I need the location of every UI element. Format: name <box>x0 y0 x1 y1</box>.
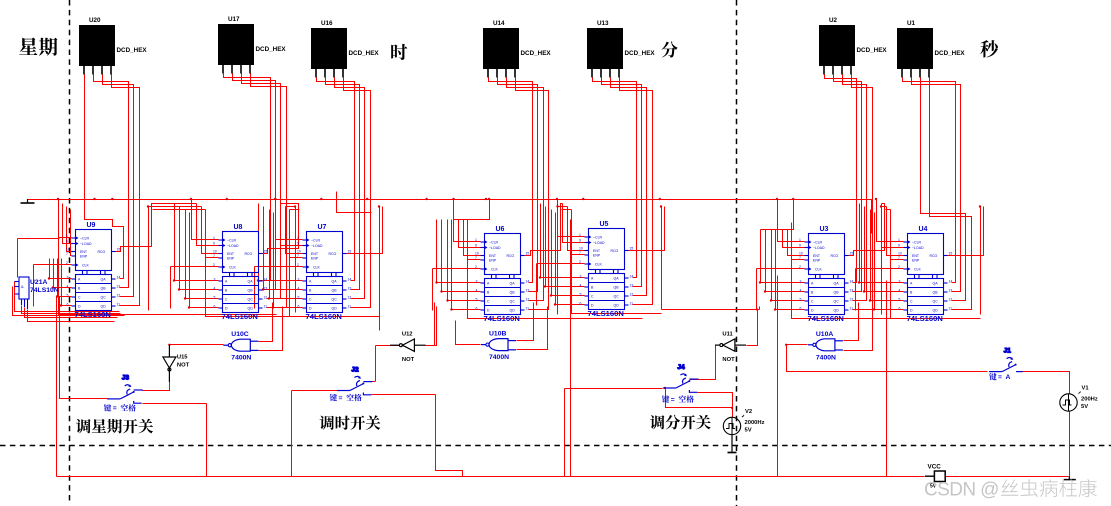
svg-text:74LS160N: 74LS160N <box>588 309 624 318</box>
svg-text:QA: QA <box>614 277 620 281</box>
svg-text:11: 11 <box>348 305 352 309</box>
svg-text:1: 1 <box>475 238 477 242</box>
svg-text:5: 5 <box>899 298 901 302</box>
svg-text:7: 7 <box>475 256 477 260</box>
svg-text:QA: QA <box>834 282 840 286</box>
svg-text:11: 11 <box>630 302 634 306</box>
svg-text:13: 13 <box>630 284 634 288</box>
svg-text:9: 9 <box>297 242 299 246</box>
svg-text:~CLR: ~CLR <box>227 239 237 243</box>
svg-text:=: = <box>671 396 675 403</box>
svg-text:7: 7 <box>579 251 581 255</box>
svg-text:74LS160N: 74LS160N <box>907 314 943 323</box>
svg-text:1: 1 <box>579 233 581 237</box>
svg-text:7400N: 7400N <box>231 355 251 362</box>
svg-text:U4: U4 <box>919 226 928 233</box>
svg-text:RCO: RCO <box>611 249 619 253</box>
svg-text:ENT: ENT <box>80 250 88 254</box>
svg-text:DCD_HEX: DCD_HEX <box>935 50 966 57</box>
svg-text:U14: U14 <box>493 20 505 27</box>
svg-text:9: 9 <box>579 239 581 243</box>
svg-text:DCD_HEX: DCD_HEX <box>117 47 148 54</box>
svg-text:12: 12 <box>348 296 352 300</box>
svg-text:ENT: ENT <box>813 254 821 258</box>
svg-text:74LS160N: 74LS160N <box>808 314 844 323</box>
svg-text:13: 13 <box>117 285 121 289</box>
svg-text:15: 15 <box>850 252 854 256</box>
svg-text:U2: U2 <box>829 17 838 24</box>
svg-text:3: 3 <box>899 280 901 284</box>
svg-text:14: 14 <box>850 280 854 284</box>
svg-text:QA: QA <box>332 280 338 284</box>
svg-text:QC: QC <box>101 296 107 300</box>
svg-text:6: 6 <box>476 307 478 311</box>
svg-text:15: 15 <box>630 247 634 251</box>
svg-text:3: 3 <box>67 276 69 280</box>
svg-text:ENP: ENP <box>593 254 601 258</box>
svg-text:~CLR: ~CLR <box>593 236 603 240</box>
svg-text:ENP: ENP <box>813 259 821 263</box>
svg-text:DCD_HEX: DCD_HEX <box>625 50 656 57</box>
svg-text:V2: V2 <box>745 409 752 415</box>
svg-text:5V: 5V <box>1081 404 1088 410</box>
svg-text:4: 4 <box>580 284 582 288</box>
svg-text:14: 14 <box>526 280 530 284</box>
svg-text:12: 12 <box>630 293 634 297</box>
svg-text:1: 1 <box>898 238 900 242</box>
svg-text:13: 13 <box>526 289 530 293</box>
svg-text:=: = <box>113 405 117 412</box>
svg-text:~LOAD: ~LOAD <box>593 241 605 245</box>
svg-text:15: 15 <box>526 252 530 256</box>
svg-text:2: 2 <box>66 261 68 265</box>
svg-text:QC: QC <box>248 298 254 302</box>
svg-text:2000Hz: 2000Hz <box>745 420 765 426</box>
svg-text:5: 5 <box>214 296 216 300</box>
svg-text:QD: QD <box>101 305 107 309</box>
svg-text:5: 5 <box>67 294 69 298</box>
svg-text:CLK: CLK <box>595 263 602 267</box>
svg-text:13: 13 <box>348 287 352 291</box>
svg-text:3: 3 <box>800 280 802 284</box>
svg-text:RCO: RCO <box>930 254 938 258</box>
svg-text:~CLR: ~CLR <box>489 241 499 245</box>
svg-text:CLK: CLK <box>229 266 236 270</box>
svg-text:ENP: ENP <box>311 257 319 261</box>
svg-text:2: 2 <box>297 263 299 267</box>
svg-text:RCO: RCO <box>831 254 839 258</box>
svg-text:QB: QB <box>248 289 254 293</box>
svg-text:74LS10N: 74LS10N <box>30 287 59 294</box>
svg-text:~CLR: ~CLR <box>80 237 90 241</box>
svg-text:U9: U9 <box>87 222 96 229</box>
svg-text:7: 7 <box>898 256 900 260</box>
svg-text:QC: QC <box>510 300 516 304</box>
svg-text:NOT: NOT <box>177 363 190 369</box>
svg-text:ENP: ENP <box>80 255 88 259</box>
svg-text:QC: QC <box>834 300 840 304</box>
svg-text:U21A: U21A <box>30 279 47 286</box>
svg-text:U10A: U10A <box>816 331 833 338</box>
svg-text:10: 10 <box>898 252 902 256</box>
svg-text:5: 5 <box>580 293 582 297</box>
svg-text:7400N: 7400N <box>816 354 836 361</box>
svg-text:U1: U1 <box>907 20 916 27</box>
svg-text:9: 9 <box>475 244 477 248</box>
svg-text:4: 4 <box>476 289 478 293</box>
svg-text:6: 6 <box>800 307 802 311</box>
svg-text:3: 3 <box>298 278 300 282</box>
svg-text:10: 10 <box>475 252 479 256</box>
svg-text:DCD_HEX: DCD_HEX <box>256 46 287 53</box>
svg-text:U7: U7 <box>318 224 327 231</box>
svg-text:11: 11 <box>117 303 121 307</box>
svg-text:QC: QC <box>933 300 939 304</box>
svg-text:3: 3 <box>580 275 582 279</box>
svg-text:6: 6 <box>580 302 582 306</box>
svg-text:U17: U17 <box>228 16 240 23</box>
svg-text:~LOAD: ~LOAD <box>813 246 825 250</box>
svg-text:CSDN @: CSDN @ <box>924 480 999 501</box>
svg-text:1: 1 <box>799 238 801 242</box>
svg-text:~LOAD: ~LOAD <box>227 244 239 248</box>
svg-text:10: 10 <box>213 250 217 254</box>
svg-text:U12: U12 <box>402 332 413 338</box>
svg-text:ENT: ENT <box>593 249 601 253</box>
svg-text:QB: QB <box>834 291 840 295</box>
svg-text:74LS160N: 74LS160N <box>75 310 111 319</box>
svg-text:5: 5 <box>476 298 478 302</box>
svg-text:QD: QD <box>332 307 338 311</box>
svg-text:2: 2 <box>898 265 900 269</box>
svg-text:14: 14 <box>630 275 634 279</box>
svg-text:NOT: NOT <box>722 357 735 363</box>
svg-text:RCO: RCO <box>98 250 106 254</box>
svg-text:QB: QB <box>933 291 939 295</box>
svg-text:QD: QD <box>248 307 254 311</box>
svg-text:12: 12 <box>264 296 268 300</box>
svg-text:CLK: CLK <box>82 264 89 268</box>
svg-text:QD: QD <box>614 304 620 308</box>
svg-text:RCO: RCO <box>507 254 515 258</box>
svg-text:CLK: CLK <box>914 268 921 272</box>
svg-text:3: 3 <box>214 278 216 282</box>
svg-text:QB: QB <box>614 286 620 290</box>
svg-text:QD: QD <box>834 309 840 313</box>
svg-text:V1: V1 <box>1082 386 1090 392</box>
svg-text:6: 6 <box>214 305 216 309</box>
svg-text:U6: U6 <box>496 226 505 233</box>
svg-text:14: 14 <box>264 278 268 282</box>
svg-text:74LS160N: 74LS160N <box>484 314 520 323</box>
svg-text:NOT: NOT <box>402 357 415 363</box>
svg-text:U13: U13 <box>597 20 609 27</box>
svg-text:7400N: 7400N <box>489 354 509 361</box>
svg-text:9: 9 <box>898 244 900 248</box>
svg-text:QB: QB <box>101 287 107 291</box>
svg-text:ENT: ENT <box>489 254 497 258</box>
svg-text:1: 1 <box>66 234 68 238</box>
svg-text:=: = <box>998 374 1002 381</box>
svg-text:J2: J2 <box>351 366 359 373</box>
svg-text:9: 9 <box>213 242 215 246</box>
svg-text:13: 13 <box>264 287 268 291</box>
svg-text:9: 9 <box>799 244 801 248</box>
svg-text:13: 13 <box>850 289 854 293</box>
svg-text:CLK: CLK <box>491 268 498 272</box>
svg-text:4: 4 <box>298 287 300 291</box>
svg-text:7: 7 <box>213 254 215 258</box>
svg-text:QC: QC <box>614 295 620 299</box>
svg-text:11: 11 <box>949 307 953 311</box>
svg-text:CLK: CLK <box>815 268 822 272</box>
svg-text:7: 7 <box>297 254 299 258</box>
svg-text:4: 4 <box>899 289 901 293</box>
svg-text:4: 4 <box>214 287 216 291</box>
svg-text:VCC: VCC <box>928 463 942 470</box>
svg-text:15: 15 <box>117 248 121 252</box>
svg-text:U15: U15 <box>177 355 188 361</box>
svg-text:6: 6 <box>899 307 901 311</box>
svg-text:DCD_HEX: DCD_HEX <box>521 50 552 57</box>
svg-text:ENP: ENP <box>227 257 235 261</box>
svg-text:U8: U8 <box>234 224 243 231</box>
svg-text:4: 4 <box>800 289 802 293</box>
svg-text:12: 12 <box>526 298 530 302</box>
svg-text:6: 6 <box>298 305 300 309</box>
svg-text:QB: QB <box>510 291 516 295</box>
svg-text:DCD_HEX: DCD_HEX <box>349 50 380 57</box>
svg-text:14: 14 <box>949 280 953 284</box>
svg-text:13: 13 <box>949 289 953 293</box>
svg-text:U11: U11 <box>722 332 733 338</box>
svg-text:2: 2 <box>579 260 581 264</box>
svg-text:12: 12 <box>949 298 953 302</box>
svg-text:U10B: U10B <box>489 331 506 338</box>
svg-text:U10C: U10C <box>231 331 248 338</box>
svg-text:10: 10 <box>66 248 70 252</box>
svg-text:U16: U16 <box>321 20 333 27</box>
svg-text:QD: QD <box>933 309 939 313</box>
svg-text:QB: QB <box>332 289 338 293</box>
svg-text:2: 2 <box>475 265 477 269</box>
svg-text:11: 11 <box>850 307 854 311</box>
svg-text:ENT: ENT <box>912 254 920 258</box>
svg-text:~LOAD: ~LOAD <box>80 242 92 246</box>
svg-text:ENT: ENT <box>311 252 319 256</box>
svg-text:1: 1 <box>213 236 215 240</box>
svg-text:J1: J1 <box>1004 347 1012 354</box>
svg-text:QA: QA <box>248 280 254 284</box>
svg-text:74LS160N: 74LS160N <box>222 312 258 321</box>
svg-text:ENP: ENP <box>912 259 920 263</box>
svg-text:5: 5 <box>298 296 300 300</box>
svg-text:1: 1 <box>297 236 299 240</box>
svg-text:2: 2 <box>799 265 801 269</box>
svg-text:12: 12 <box>850 298 854 302</box>
svg-text:5: 5 <box>800 298 802 302</box>
svg-text:CLK: CLK <box>313 266 320 270</box>
svg-text:12: 12 <box>117 294 121 298</box>
svg-text:10: 10 <box>579 247 583 251</box>
svg-text:RCO: RCO <box>329 252 337 256</box>
svg-text:14: 14 <box>117 276 121 280</box>
svg-text:QD: QD <box>510 309 516 313</box>
svg-text:2: 2 <box>213 263 215 267</box>
svg-text:15: 15 <box>348 250 352 254</box>
svg-text:ENP: ENP <box>489 259 497 263</box>
svg-text:6: 6 <box>67 303 69 307</box>
svg-text:QA: QA <box>101 278 107 282</box>
svg-text:QA: QA <box>510 282 516 286</box>
svg-text:~CLR: ~CLR <box>311 239 321 243</box>
svg-text:QC: QC <box>332 298 338 302</box>
svg-text:J3: J3 <box>122 375 130 382</box>
svg-text:ENT: ENT <box>227 252 235 256</box>
svg-text:7: 7 <box>66 252 68 256</box>
svg-text:QA: QA <box>933 282 939 286</box>
svg-text:A: A <box>1006 374 1011 381</box>
svg-text:10: 10 <box>297 250 301 254</box>
svg-text:74LS160N: 74LS160N <box>306 312 342 321</box>
svg-text:~CLR: ~CLR <box>813 241 823 245</box>
svg-text:U20: U20 <box>89 17 101 24</box>
svg-text:J4: J4 <box>677 364 685 371</box>
svg-text:11: 11 <box>526 307 530 311</box>
svg-text:15: 15 <box>949 252 953 256</box>
svg-text:~LOAD: ~LOAD <box>489 246 501 250</box>
svg-text:15: 15 <box>264 250 268 254</box>
svg-text:7: 7 <box>799 256 801 260</box>
svg-text:3: 3 <box>476 280 478 284</box>
svg-text:9: 9 <box>66 240 68 244</box>
svg-text:10: 10 <box>799 252 803 256</box>
svg-text:U3: U3 <box>820 226 829 233</box>
svg-text:=: = <box>339 395 343 402</box>
svg-text:11: 11 <box>264 305 268 309</box>
svg-text:14: 14 <box>348 278 352 282</box>
svg-text:200Hz: 200Hz <box>1081 397 1098 403</box>
svg-text:4: 4 <box>67 285 69 289</box>
svg-text:~CLR: ~CLR <box>912 241 922 245</box>
svg-text:DCD_HEX: DCD_HEX <box>857 47 888 54</box>
svg-text:5V: 5V <box>745 428 752 434</box>
svg-text:U5: U5 <box>600 221 609 228</box>
svg-text:~LOAD: ~LOAD <box>912 246 924 250</box>
svg-text:&: & <box>21 284 24 289</box>
svg-text:~LOAD: ~LOAD <box>311 244 323 248</box>
svg-text:RCO: RCO <box>245 252 253 256</box>
